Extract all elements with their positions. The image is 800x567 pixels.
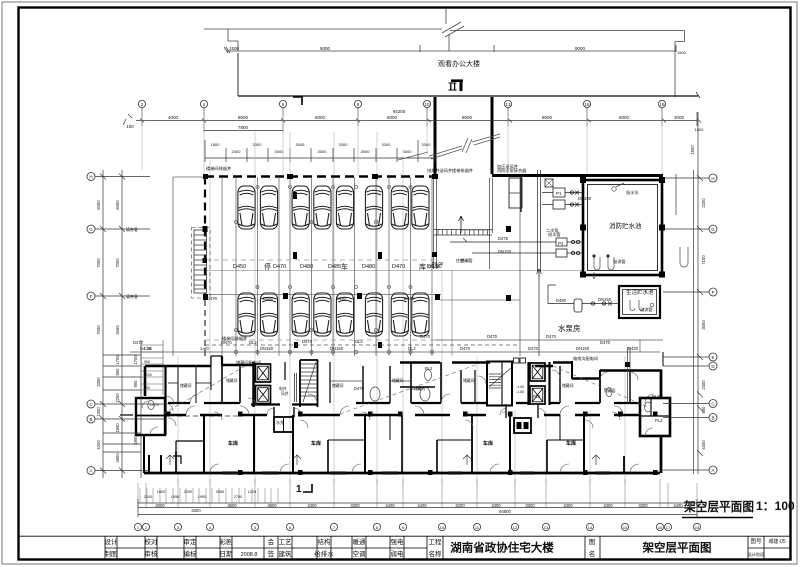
svg-text:1200: 1200 — [144, 373, 152, 377]
svg-text:3800: 3800 — [267, 503, 277, 508]
left axis bubbles — [87, 173, 95, 475]
svg-text:1800: 1800 — [211, 142, 221, 147]
car 13 — [336, 293, 353, 336]
svg-text:D485: D485 — [328, 264, 341, 270]
domestic water tank — [619, 286, 660, 318]
svg-text:车库: 车库 — [483, 440, 493, 447]
garage dashed top wall — [173, 176, 663, 357]
svg-text:溢流管: 溢流管 — [640, 306, 653, 313]
stair left hatch — [301, 362, 317, 402]
garage left ramp stair — [192, 226, 211, 298]
svg-text:C: C — [711, 402, 715, 407]
svg-text:8: 8 — [357, 102, 360, 107]
svg-text:3300: 3300 — [525, 503, 535, 508]
svg-text:排烟井送风井: 排烟井送风井 — [427, 167, 452, 174]
svg-text:1：100: 1：100 — [756, 499, 795, 513]
extra interior partitions lower band — [176, 415, 584, 473]
bottom dim lines — [138, 499, 697, 517]
car 11 — [292, 293, 309, 336]
svg-text:D430: D430 — [628, 346, 639, 351]
elevators right pair — [527, 362, 529, 405]
bottom axis bubbles — [134, 523, 700, 530]
car 15 — [391, 293, 408, 336]
svg-text:2250: 2250 — [184, 490, 192, 494]
svg-text:编标: 编标 — [184, 549, 198, 558]
svg-text:储藏间: 储藏间 — [562, 383, 574, 388]
svg-text:1950: 1950 — [133, 435, 138, 445]
svg-text:生活贮水池: 生活贮水池 — [626, 288, 654, 296]
structural columns mid wall — [166, 412, 658, 476]
svg-text:给排水: 给排水 — [314, 549, 334, 558]
left tick ladder above apartment — [141, 340, 163, 395]
svg-text:车库: 车库 — [566, 440, 576, 447]
svg-text:D450: D450 — [233, 264, 246, 270]
svg-text:17: 17 — [666, 525, 671, 530]
svg-text:19: 19 — [659, 102, 665, 107]
corridor lower wall — [120, 406, 640, 415]
svg-text:D480: D480 — [263, 296, 274, 301]
svg-text:A: A — [89, 469, 92, 474]
svg-text:工程: 工程 — [429, 537, 443, 546]
svg-text:溢流管: 溢流管 — [613, 258, 626, 265]
svg-text:2400: 2400 — [701, 380, 706, 390]
room labels — [228, 440, 576, 447]
svg-text:名称: 名称 — [429, 549, 443, 558]
svg-text:1226: 1226 — [248, 490, 256, 494]
car 16 — [412, 293, 429, 336]
small texts above garage — [206, 163, 527, 342]
svg-text:D480: D480 — [362, 264, 375, 270]
svg-text:8000: 8000 — [462, 115, 473, 120]
svg-text:3300: 3300 — [382, 142, 392, 147]
car row 2 — [238, 293, 429, 336]
svg-text:10: 10 — [424, 102, 430, 107]
svg-text:3200: 3200 — [455, 503, 465, 508]
svg-text:建筑: 建筑 — [279, 549, 293, 558]
svg-text:填充墙: 填充墙 — [126, 294, 138, 299]
svg-text:D470: D470 — [460, 346, 471, 351]
svg-text:D470: D470 — [207, 296, 218, 301]
svg-text:4400: 4400 — [673, 503, 683, 508]
svg-text:D470: D470 — [133, 340, 144, 345]
small left labels near G/F rows — [126, 227, 159, 407]
svg-text:14: 14 — [588, 525, 593, 530]
car 4 — [314, 186, 331, 229]
svg-text:弱电: 弱电 — [391, 549, 405, 558]
ramp diagonals — [398, 134, 500, 160]
svg-text:2: 2 — [145, 525, 148, 530]
svg-text:2250: 2250 — [115, 393, 120, 403]
garage mid line extension — [205, 270, 583, 272]
car 1 — [238, 186, 255, 229]
svg-text:城建-05: 城建-05 — [768, 538, 785, 545]
svg-text:-1.50: -1.50 — [516, 385, 524, 389]
car 2 — [260, 186, 277, 229]
svg-text:1700: 1700 — [133, 355, 138, 365]
svg-text:D9.00: D9.00 — [432, 261, 444, 266]
svg-text:2700: 2700 — [234, 495, 242, 499]
svg-text:4300: 4300 — [307, 503, 317, 508]
svg-text:F: F — [712, 290, 715, 295]
svg-text:D470: D470 — [410, 386, 421, 391]
svg-text:3300: 3300 — [638, 503, 648, 508]
svg-text:4: 4 — [209, 525, 212, 530]
svg-text:PL2: PL2 — [655, 418, 663, 423]
svg-text:D470: D470 — [600, 340, 611, 345]
svg-text:1500: 1500 — [690, 145, 695, 155]
svg-text:D470: D470 — [354, 386, 365, 391]
svg-text:1500: 1500 — [695, 127, 705, 132]
svg-text:D475: D475 — [498, 236, 509, 241]
svg-text:制图: 制图 — [105, 549, 118, 558]
car 8 — [412, 186, 429, 229]
svg-text:4400: 4400 — [701, 440, 706, 450]
garage columns — [203, 174, 511, 348]
stair right section — [487, 358, 526, 406]
svg-text:5: 5 — [254, 525, 257, 530]
lower band walls — [144, 415, 660, 473]
svg-text:3000: 3000 — [318, 149, 328, 154]
svg-text:彩剧: 彩剧 — [220, 537, 233, 546]
svg-text:1500: 1500 — [229, 46, 240, 51]
svg-text:湖南省政协住宅大楼: 湖南省政协住宅大楼 — [450, 541, 554, 555]
window marks on bottom wall — [222, 472, 610, 475]
svg-text:11: 11 — [475, 525, 480, 530]
svg-text:3000: 3000 — [403, 149, 413, 154]
parking bay dimension row — [205, 140, 435, 162]
svg-text:C: C — [89, 402, 93, 407]
elevator 1 — [256, 364, 271, 382]
svg-text:8400: 8400 — [96, 200, 101, 210]
svg-text:8000: 8000 — [238, 115, 249, 120]
svg-text:7000: 7000 — [115, 258, 120, 268]
svg-text:950: 950 — [133, 380, 138, 388]
svg-text:风井: 风井 — [281, 391, 289, 396]
svg-text:2200: 2200 — [701, 198, 706, 208]
svg-text:850: 850 — [701, 406, 706, 414]
svg-text:审定: 审定 — [184, 537, 198, 546]
svg-text:储藏间配电间: 储藏间配电间 — [236, 359, 261, 366]
svg-text:加压送风井: 加压送风井 — [497, 163, 518, 170]
svg-text:2008.8: 2008.8 — [241, 552, 258, 558]
svg-text:储藏间: 储藏间 — [463, 378, 475, 383]
corridor walls below building — [434, 97, 523, 269]
svg-text:4300: 4300 — [563, 503, 573, 508]
svg-text:3: 3 — [177, 525, 180, 530]
svg-text:DL2: DL2 — [249, 340, 257, 345]
svg-text:G: G — [711, 227, 715, 232]
svg-text:1: 1 — [296, 484, 302, 495]
svg-text:储藏间: 储藏间 — [332, 383, 344, 388]
svg-text:消防贮水池: 消防贮水池 — [609, 221, 642, 230]
svg-text:D470: D470 — [392, 264, 405, 270]
svg-text:1300: 1300 — [96, 407, 101, 417]
svg-text:4800: 4800 — [115, 453, 120, 463]
svg-text:空调: 空调 — [353, 549, 366, 558]
svg-text:4000: 4000 — [168, 115, 179, 120]
svg-text:D480: D480 — [336, 296, 347, 301]
svg-text:校对: 校对 — [145, 537, 159, 546]
left dim columns — [95, 170, 165, 478]
svg-text:设计: 设计 — [105, 537, 119, 546]
svg-text:4: 4 — [203, 102, 206, 107]
svg-text:3000: 3000 — [701, 320, 706, 330]
svg-text:DL2: DL2 — [408, 346, 416, 351]
svg-text:94200: 94200 — [393, 109, 406, 114]
svg-text:950: 950 — [144, 360, 150, 364]
svg-text:E: E — [711, 355, 714, 360]
svg-text:给水管: 给水管 — [548, 231, 561, 238]
elevator 2 — [256, 386, 271, 404]
tank internals — [592, 183, 688, 279]
right protruding unit — [640, 398, 670, 436]
svg-text:DN150: DN150 — [576, 346, 590, 351]
apartment top walls — [145, 356, 662, 473]
svg-text:6: 6 — [282, 102, 285, 107]
svg-text:3300: 3300 — [253, 142, 263, 147]
right dim column — [663, 112, 709, 474]
svg-text:8400: 8400 — [115, 200, 120, 210]
svg-text:2: 2 — [141, 102, 144, 107]
svg-text:1950: 1950 — [171, 495, 179, 499]
elevators left pair — [252, 362, 254, 407]
svg-text:1㎡0: 1㎡0 — [200, 345, 210, 351]
svg-text:楼梯排烟井: 楼梯排烟井 — [452, 167, 473, 174]
svg-text:储藏间: 储藏间 — [180, 383, 192, 388]
svg-text:电井: 电井 — [279, 386, 287, 391]
svg-text:7800: 7800 — [238, 125, 249, 130]
svg-text:4300: 4300 — [491, 503, 501, 508]
big drawing title — [682, 499, 795, 518]
svg-text:住梦间: 住梦间 — [456, 257, 469, 264]
svg-text:D470: D470 — [420, 334, 431, 339]
car 3 — [292, 186, 309, 229]
svg-text:P2: P2 — [558, 241, 564, 246]
svg-text:填充墙: 填充墙 — [126, 227, 138, 232]
svg-text:G: G — [89, 227, 93, 232]
svg-text:3300: 3300 — [350, 503, 360, 508]
svg-text:DN100: DN100 — [578, 196, 592, 201]
svg-text:D480: D480 — [404, 296, 415, 301]
svg-text:7100: 7100 — [701, 255, 706, 265]
svg-text:D470: D470 — [487, 334, 498, 339]
svg-text:储藏间: 储藏间 — [392, 378, 404, 383]
svg-text:1900: 1900 — [198, 495, 206, 499]
pipe and labels row above apartments — [130, 340, 663, 352]
svg-text:工艺: 工艺 — [279, 538, 293, 546]
svg-text:7000: 7000 — [96, 325, 101, 335]
svg-text:1800: 1800 — [157, 490, 165, 494]
svg-text:电缆沟配电间: 电缆沟配电间 — [573, 355, 598, 362]
svg-text:吸水坑: 吸水坑 — [626, 189, 639, 196]
svg-text:4000: 4000 — [155, 503, 165, 508]
svg-text:2950: 2950 — [216, 490, 224, 494]
svg-text:审核: 审核 — [145, 549, 159, 558]
svg-text:16: 16 — [658, 525, 663, 530]
svg-text:H: H — [711, 176, 714, 181]
car 10 — [260, 293, 277, 336]
svg-text:PL2: PL2 — [533, 394, 541, 399]
svg-text:3300: 3300 — [422, 142, 432, 147]
svg-text:900: 900 — [144, 386, 150, 390]
svg-text:6: 6 — [289, 525, 292, 530]
elevator 4 — [530, 386, 545, 404]
corridor upper wall — [168, 394, 654, 405]
svg-text:F: F — [90, 294, 93, 299]
svg-text:停: 停 — [264, 262, 271, 271]
svg-text:9000: 9000 — [575, 46, 586, 51]
svg-text:8000: 8000 — [387, 115, 398, 120]
car row 1 — [238, 186, 429, 229]
right upper small rooms beside tank — [662, 352, 664, 366]
right upper rooms — [400, 362, 630, 403]
svg-text:D470: D470 — [150, 403, 159, 407]
svg-text:D480: D480 — [556, 298, 567, 303]
car 9 — [238, 293, 255, 336]
garage center labels — [233, 262, 442, 271]
svg-text:水泵房: 水泵房 — [558, 323, 581, 333]
svg-text:会: 会 — [268, 537, 275, 546]
svg-text:3600: 3600 — [227, 503, 237, 508]
svg-text:观看办公大楼: 观看办公大楼 — [438, 59, 480, 68]
svg-text:D470: D470 — [273, 264, 286, 270]
svg-text:强电: 强电 — [391, 537, 405, 546]
svg-text:3465: 3465 — [115, 325, 120, 335]
svg-text:名: 名 — [589, 549, 596, 558]
car 5 — [336, 186, 353, 229]
svg-text:A: A — [711, 468, 714, 473]
storage band walls left half — [211, 360, 461, 407]
svg-text:1500: 1500 — [677, 50, 687, 55]
svg-text:H: H — [89, 175, 92, 180]
svg-text:D470: D470 — [302, 339, 313, 344]
svg-text:94800: 94800 — [499, 509, 511, 514]
ramp bottom hatch strip — [434, 216, 492, 242]
svg-text:1700: 1700 — [115, 355, 120, 365]
site boundary line with break — [204, 9, 685, 98]
svg-text:15: 15 — [623, 525, 628, 530]
svg-text:2100: 2100 — [144, 495, 152, 499]
svg-text:1700: 1700 — [144, 347, 152, 351]
svg-text:水井: 水井 — [276, 419, 284, 425]
svg-text:架空层平面图: 架空层平面图 — [642, 541, 712, 555]
section mark II top — [449, 80, 464, 92]
svg-text:950: 950 — [115, 368, 120, 376]
car 14 — [365, 293, 382, 336]
svg-text:8000: 8000 — [619, 115, 630, 120]
section mark 1 bottom — [296, 484, 312, 495]
top axis bubbles row — [138, 100, 665, 107]
diagonal dashed reference line — [163, 362, 252, 414]
section mark 1 top (in garage) — [293, 97, 302, 105]
svg-text:3000: 3000 — [361, 149, 371, 154]
svg-text:签: 签 — [268, 549, 275, 558]
svg-text:1950: 1950 — [115, 423, 120, 433]
svg-text:D480: D480 — [300, 264, 313, 270]
titleblock labels small — [105, 537, 786, 558]
elevator 3 — [530, 363, 545, 381]
svg-text:暖通: 暖通 — [353, 537, 367, 546]
svg-text:DN150: DN150 — [260, 346, 274, 351]
svg-text:库: 库 — [419, 262, 426, 271]
svg-text:图号: 图号 — [750, 537, 762, 545]
svg-text:3300: 3300 — [96, 377, 101, 387]
svg-text:8: 8 — [376, 525, 379, 530]
svg-text:结构: 结构 — [318, 537, 332, 546]
extra upper band partitions + room labels — [168, 366, 475, 403]
svg-text:车库: 车库 — [311, 440, 321, 447]
titleblock — [19, 536, 791, 560]
svg-text:7: 7 — [333, 525, 336, 530]
fire reserve water tank — [581, 178, 665, 278]
svg-text:4400: 4400 — [385, 503, 395, 508]
svg-text:7000: 7000 — [96, 258, 101, 268]
svg-text:PL2: PL2 — [652, 394, 660, 399]
car 6 — [365, 186, 382, 229]
svg-text:12: 12 — [513, 525, 518, 530]
svg-text:-1.80: -1.80 — [516, 390, 524, 394]
svg-text:3300: 3300 — [339, 142, 349, 147]
svg-text:P1: P1 — [556, 191, 562, 196]
svg-text:16: 16 — [584, 102, 590, 107]
svg-text:D470: D470 — [528, 346, 539, 351]
svg-text:储藏间: 储藏间 — [226, 378, 238, 383]
svg-text:10: 10 — [440, 525, 445, 530]
svg-text:车库: 车库 — [228, 440, 238, 447]
svg-text:架空层平面图: 架空层平面图 — [683, 499, 754, 514]
svg-text:DN150: DN150 — [598, 297, 612, 302]
svg-text:3300: 3300 — [191, 508, 201, 513]
car 12 — [314, 293, 331, 336]
svg-text:18: 18 — [695, 525, 700, 530]
svg-text:9: 9 — [402, 525, 405, 530]
left unit block — [136, 366, 240, 473]
svg-text:B: B — [89, 417, 92, 422]
parking divider grid lines — [205, 177, 520, 356]
svg-text:100: 100 — [126, 124, 134, 129]
svg-text:D: D — [711, 364, 715, 369]
office building outline — [238, 53, 700, 98]
svg-text:车: 车 — [341, 262, 348, 271]
svg-text:4300: 4300 — [603, 503, 613, 508]
svg-text:8000: 8000 — [315, 115, 326, 120]
svg-text:DN70: DN70 — [221, 340, 232, 345]
pumps and pipes — [450, 170, 619, 356]
svg-text:13: 13 — [544, 525, 549, 530]
svg-text:DN150: DN150 — [330, 346, 344, 351]
svg-text:3000: 3000 — [674, 115, 685, 120]
top main dimension line — [123, 108, 701, 132]
svg-text:8000: 8000 — [542, 115, 553, 120]
svg-text:4400: 4400 — [417, 503, 427, 508]
svg-text:楼梯间排烟井: 楼梯间排烟井 — [206, 165, 231, 172]
door arcs lower band — [166, 370, 639, 473]
svg-text:13: 13 — [505, 102, 511, 107]
svg-text:B: B — [711, 416, 714, 421]
right axis bubbles — [709, 174, 717, 474]
bottom extension lines — [138, 479, 697, 508]
svg-text:设计阶段: 设计阶段 — [748, 551, 766, 558]
long axis construction lines — [142, 110, 662, 485]
svg-text:1: 1 — [137, 525, 140, 530]
small shaft box below elevators — [267, 373, 301, 432]
svg-text:PL2: PL2 — [425, 366, 433, 371]
svg-text:图: 图 — [589, 538, 596, 546]
svg-text:4200: 4200 — [96, 440, 101, 450]
car 7 — [391, 186, 408, 229]
svg-text:2400: 2400 — [232, 149, 242, 154]
svg-text:3045: 3045 — [296, 142, 306, 147]
